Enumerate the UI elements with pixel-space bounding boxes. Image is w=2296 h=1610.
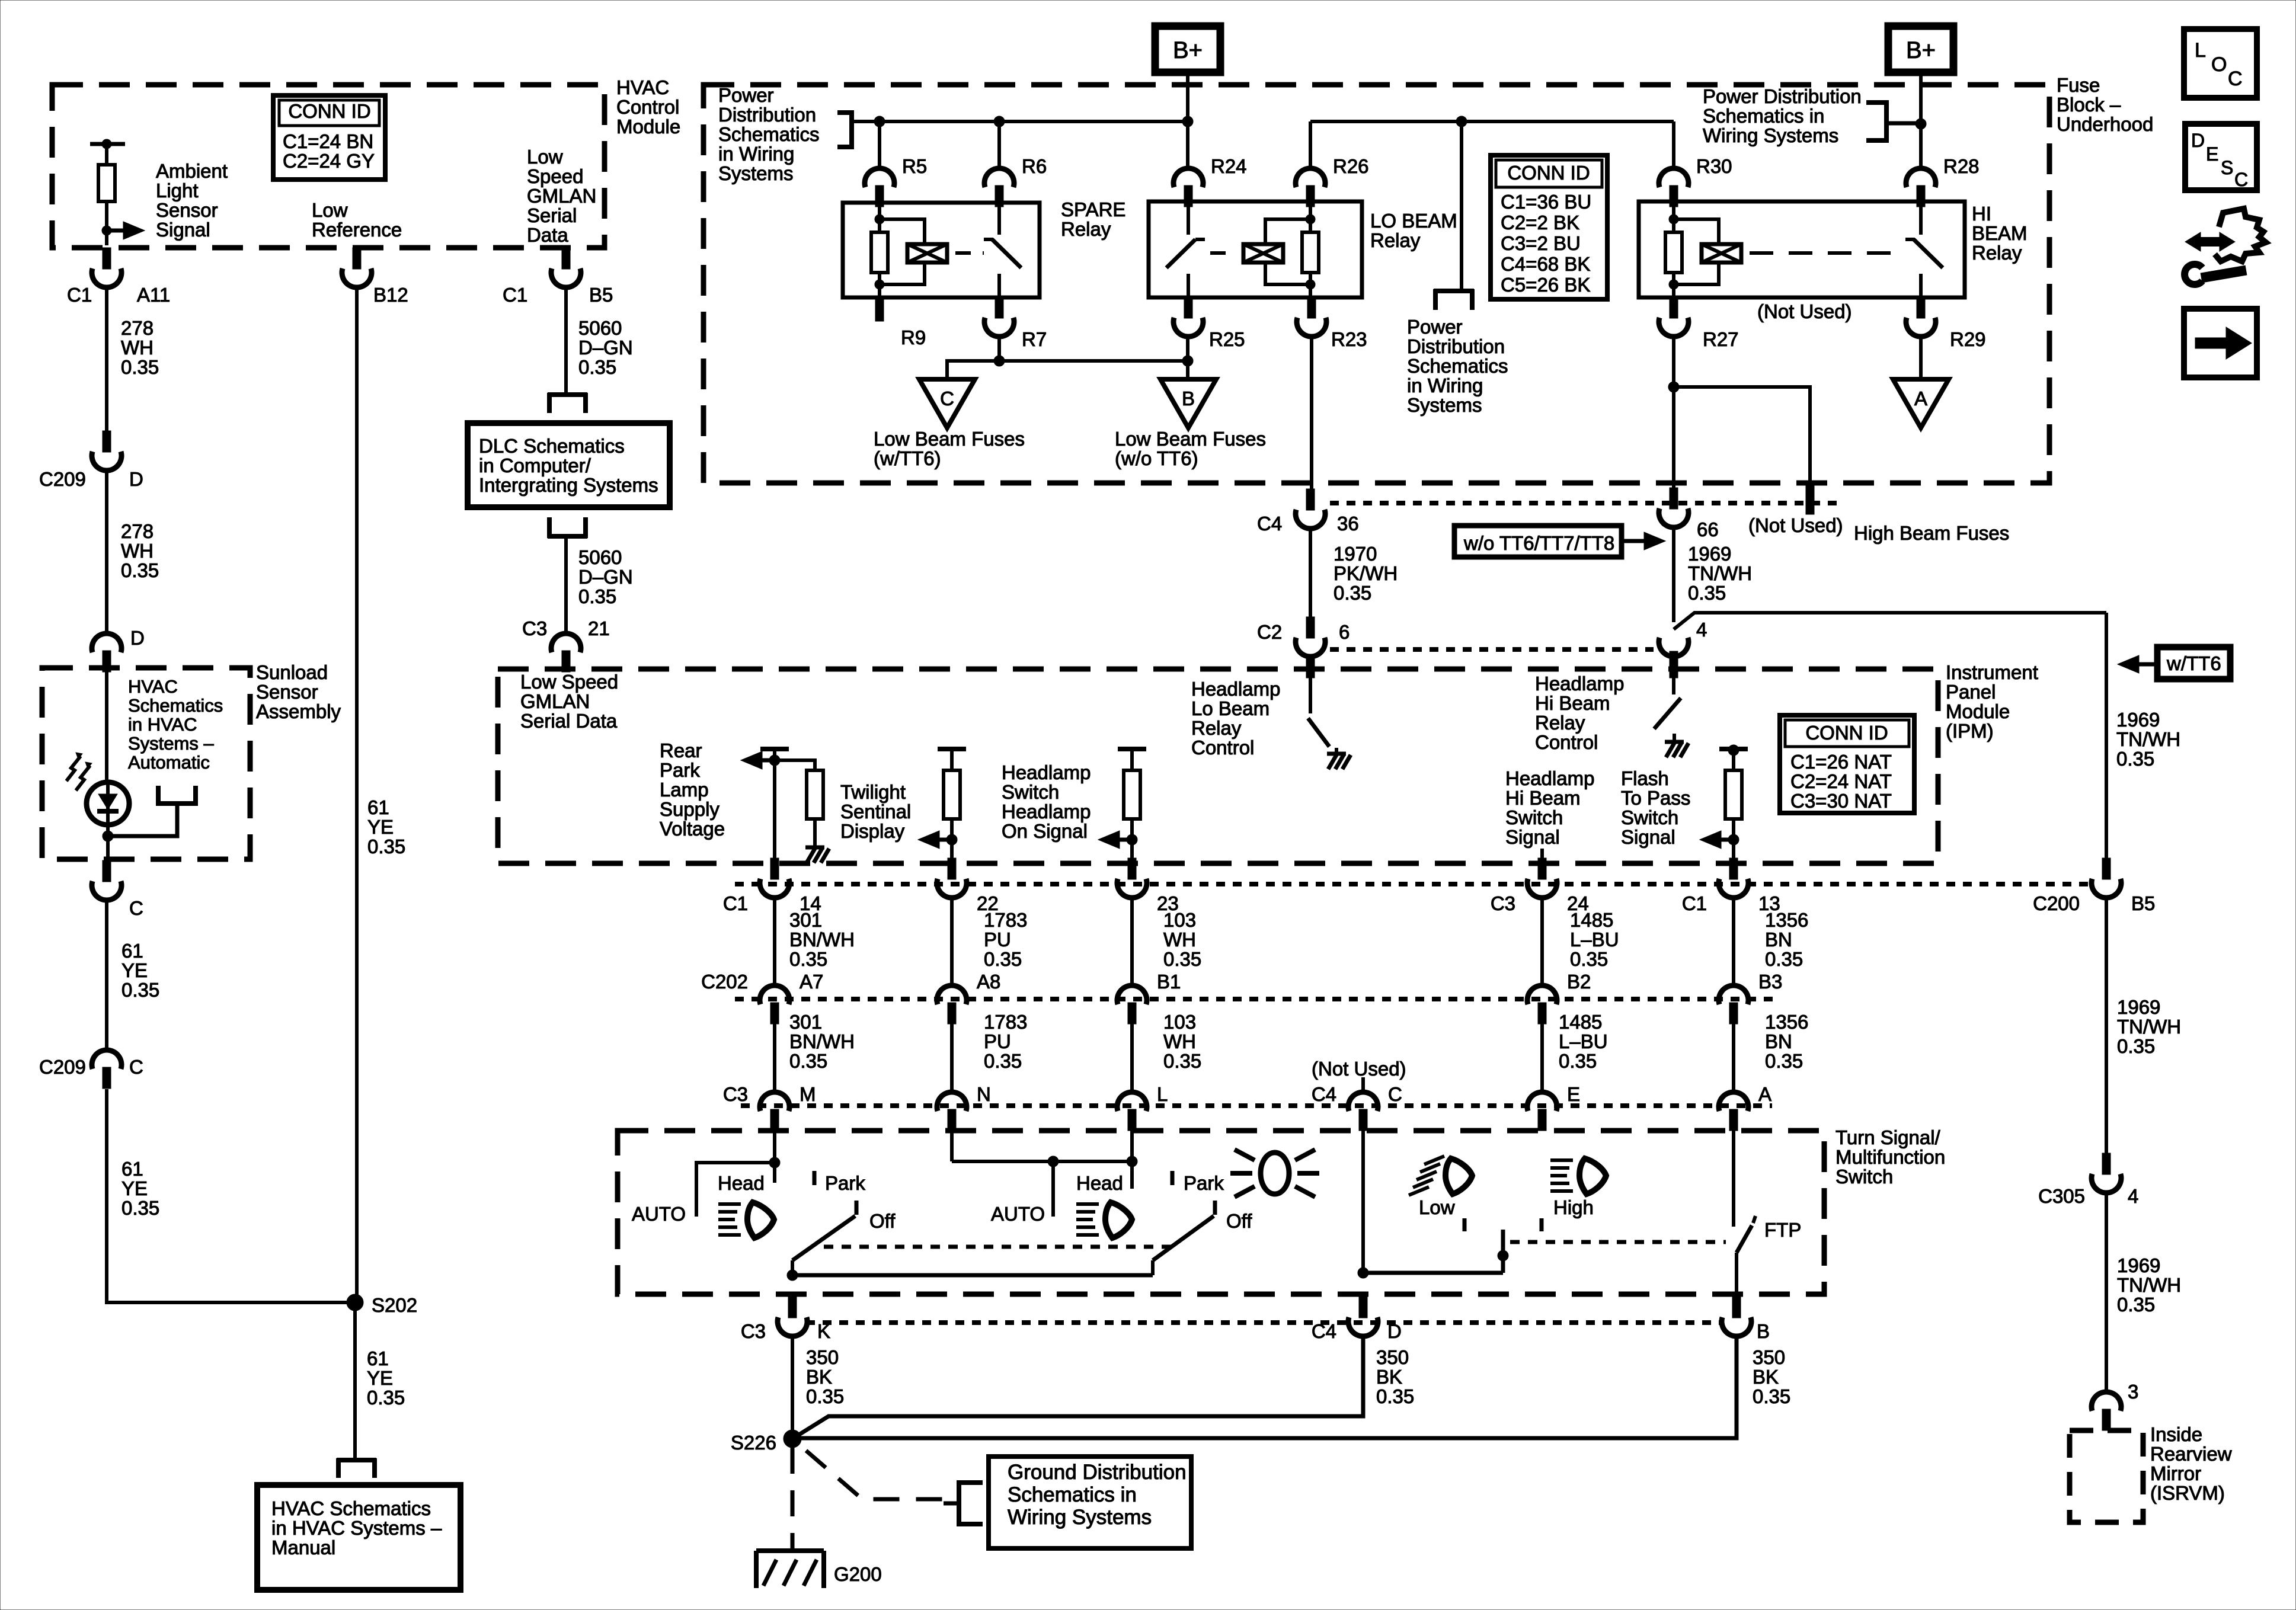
svg-text:Low Beam Fuses: Low Beam Fuses <box>1115 428 1266 450</box>
svg-text:Power: Power <box>1407 316 1463 338</box>
label Low Speed GMLAN Serial Data (HVAC) <box>527 146 596 246</box>
svg-text:1485: 1485 <box>1570 909 1613 931</box>
connector 23 <box>1128 858 1136 879</box>
label wire 61 YE 0.35 col1 upper <box>121 940 159 1001</box>
svg-text:Switch: Switch <box>1002 781 1059 803</box>
wire 61 YE col1 lower <box>107 1089 355 1302</box>
fine dash row IPM bottom <box>735 882 2092 886</box>
wire R27 down <box>1672 338 1675 501</box>
svg-text:Schematics in: Schematics in <box>1008 1483 1137 1506</box>
wire lo relay control <box>1309 678 1312 713</box>
HI coil node bottom <box>1669 280 1678 289</box>
label wire 350 BK (B) <box>1753 1346 1790 1407</box>
stub not used terminal <box>1806 485 1814 514</box>
svg-text:Serial Data: Serial Data <box>520 710 618 732</box>
svg-text:0.35: 0.35 <box>984 948 1022 970</box>
svg-text:BN/WH: BN/WH <box>789 929 855 950</box>
wire R5 drop <box>878 121 881 168</box>
svg-text:Wiring Systems: Wiring Systems <box>1703 124 1838 146</box>
svg-text:Mirror: Mirror <box>2150 1462 2201 1484</box>
svg-text:C1=24 BN: C1=24 BN <box>283 130 373 152</box>
svg-text:0.35: 0.35 <box>1163 1050 1201 1072</box>
Turn Signal Multifunction Switch dashed box <box>618 1131 1824 1294</box>
svg-text:(IPM): (IPM) <box>1946 720 1994 742</box>
label wire 1485 L-BU (upper) <box>1570 909 1619 970</box>
svg-text:C3=30 NAT: C3=30 NAT <box>1790 790 1892 812</box>
terminal R9 stub (not used) <box>875 297 884 321</box>
svg-text:R23: R23 <box>1331 328 1367 350</box>
svg-text:1783: 1783 <box>984 909 1027 931</box>
svg-text:C3: C3 <box>522 617 547 639</box>
SPARE coil node top <box>875 215 884 224</box>
svg-text:Head: Head <box>718 1172 765 1194</box>
svg-text:C5=26 BK: C5=26 BK <box>1501 274 1590 296</box>
svg-text:R9: R9 <box>901 327 926 348</box>
hi beam control switch blade <box>1654 698 1681 729</box>
svg-text:S202: S202 <box>372 1294 417 1316</box>
svg-text:D: D <box>2191 130 2205 151</box>
svg-text:D–GN: D–GN <box>578 337 633 359</box>
connector E switch <box>1527 1092 1557 1111</box>
headlamp icon switch2 <box>1076 1202 1099 1206</box>
HVAC Schematics Manual reference box <box>257 1485 461 1590</box>
svg-text:0.35: 0.35 <box>578 356 616 378</box>
label wire 1356 BN (lower) <box>1765 1011 1808 1072</box>
svg-text:L: L <box>2195 39 2206 62</box>
svg-text:Supply: Supply <box>660 798 720 820</box>
wire column x1307 C202 to switch row <box>773 1014 776 1092</box>
connector B3 <box>1719 985 1748 1004</box>
FTP blade <box>1753 1216 1755 1223</box>
svg-text:Park: Park <box>660 759 700 781</box>
wire column x1307 IPM to C202 <box>773 899 776 985</box>
node dot ambient sensor top <box>102 139 111 149</box>
svg-text:Control: Control <box>1535 731 1598 753</box>
svg-text:Turn Signal/: Turn Signal/ <box>1835 1126 1941 1148</box>
svg-text:w/TT6: w/TT6 <box>2166 652 2221 674</box>
svg-text:Twilight: Twilight <box>840 781 906 803</box>
connector R28 <box>1906 168 1936 187</box>
fuse triangle A <box>1893 379 1949 428</box>
svg-text:L–BU: L–BU <box>1570 929 1619 950</box>
wire S226 to ground dashed <box>791 1448 795 1550</box>
svg-text:A7: A7 <box>800 971 823 993</box>
connector R25 <box>1184 297 1192 318</box>
svg-text:On Signal: On Signal <box>1002 820 1088 842</box>
label wire 103 WH (lower) <box>1163 1011 1201 1072</box>
connector B1 <box>1117 985 1147 1004</box>
label wire 5060 D-GN 0.35 upper <box>578 317 633 378</box>
svg-text:Sensor: Sensor <box>256 681 318 703</box>
label Flash To Pass Switch Signal <box>1621 767 1690 848</box>
svg-text:Inside: Inside <box>2150 1423 2202 1445</box>
connector C1 B5 <box>562 248 570 269</box>
svg-text:Schematics in: Schematics in <box>1703 105 1824 127</box>
arrow legend box <box>2184 309 2257 377</box>
svg-text:PU: PU <box>984 929 1011 950</box>
svg-text:0.35: 0.35 <box>1765 1050 1803 1072</box>
wire B return <box>794 1337 1737 1438</box>
wire R29 down <box>1919 338 1923 379</box>
svg-text:103: 103 <box>1163 1011 1196 1033</box>
connector C3 24 <box>1538 858 1546 879</box>
relay box HI BEAM <box>1639 201 1965 297</box>
wire SPARE coil resistor bottom <box>878 273 881 297</box>
headlamp icon switch1 <box>718 1202 741 1206</box>
svg-text:Schematics: Schematics <box>128 695 223 716</box>
svg-text:S226: S226 <box>731 1432 776 1454</box>
svg-text:Headlamp: Headlamp <box>1535 673 1624 694</box>
svg-text:4: 4 <box>1696 619 1707 641</box>
svg-text:N: N <box>977 1083 991 1105</box>
svg-text:Lamp: Lamp <box>660 779 709 801</box>
connector R26 <box>1296 168 1325 187</box>
svg-text:0.35: 0.35 <box>984 1050 1022 1072</box>
switch1 blade <box>855 1201 859 1215</box>
svg-text:350: 350 <box>806 1346 839 1368</box>
wire rear park top <box>773 749 776 862</box>
node dot rear park <box>769 755 780 766</box>
svg-text:Intergrating Systems: Intergrating Systems <box>479 474 658 496</box>
svg-text:Display: Display <box>840 820 905 842</box>
svg-text:Sunload: Sunload <box>256 661 328 683</box>
SPARE coil symbol <box>907 244 947 263</box>
svg-text:High Beam Fuses: High Beam Fuses <box>1854 522 2009 544</box>
label wire 103 WH (upper) <box>1163 909 1201 970</box>
connector C4 D <box>1359 1297 1367 1318</box>
svg-text:61: 61 <box>367 1347 389 1369</box>
label Turn Signal/Multifunction Switch <box>1835 1126 1945 1188</box>
connector R24 <box>1173 168 1203 187</box>
splice S226 <box>784 1430 801 1448</box>
svg-text:350: 350 <box>1753 1346 1785 1368</box>
relay box SPARE <box>843 203 1040 297</box>
fine dash row C2-4 <box>1330 647 1654 652</box>
splice S202 <box>347 1294 363 1311</box>
label Low Beam Fuses w/o TT6 <box>1115 428 1266 469</box>
fork from DLC schematics (up) <box>548 534 587 539</box>
svg-text:0.35: 0.35 <box>2117 1035 2155 1057</box>
svg-text:S: S <box>2221 157 2233 178</box>
svg-text:B+: B+ <box>1906 37 1936 63</box>
svg-text:0.35: 0.35 <box>121 979 159 1001</box>
park tick 2 <box>1171 1171 1175 1185</box>
connector 22 <box>948 858 956 879</box>
svg-text:Distribution: Distribution <box>1407 335 1505 357</box>
label wire 350 BK (D) <box>1376 1346 1414 1407</box>
wire 1970 PK/WH <box>1309 530 1312 617</box>
connector B12 <box>353 248 361 269</box>
svg-text:0.35: 0.35 <box>1753 1385 1790 1407</box>
svg-text:AUTO: AUTO <box>991 1203 1045 1225</box>
svg-text:D–GN: D–GN <box>578 566 633 588</box>
wire HI switch top <box>1919 201 1923 235</box>
node dot R5 bus <box>874 116 885 127</box>
svg-text:0.35: 0.35 <box>367 1387 405 1409</box>
wire 278 WH upper <box>105 289 108 443</box>
svg-text:C4: C4 <box>1312 1083 1336 1105</box>
svg-text:Wiring Systems: Wiring Systems <box>1008 1506 1152 1529</box>
svg-text:Power Distribution: Power Distribution <box>1703 85 1862 107</box>
svg-text:C209: C209 <box>39 468 86 490</box>
ground rear park resistor <box>805 846 824 850</box>
svg-text:B12: B12 <box>373 284 408 306</box>
svg-text:C1: C1 <box>723 892 748 914</box>
svg-text:Assembly: Assembly <box>256 700 341 722</box>
linkage dashed switch1-2 <box>824 1245 1176 1249</box>
vehicle double-arrow wrench icon <box>2196 237 2224 247</box>
svg-text:C3: C3 <box>723 1083 748 1105</box>
svg-text:C1: C1 <box>67 284 92 306</box>
label Inside Rearview Mirror (ISRVM) <box>2150 1423 2232 1504</box>
svg-text:WH: WH <box>1163 929 1196 950</box>
label wire 1969 TN/WH (mid) <box>2117 996 2181 1057</box>
svg-text:BN: BN <box>1765 1030 1792 1052</box>
svg-text:Relay: Relay <box>1370 229 1421 251</box>
wire R7 down <box>997 338 1001 361</box>
wire LO coil top <box>1309 203 1312 232</box>
connector R27 <box>1670 297 1678 318</box>
wire K to S226 <box>791 1337 794 1430</box>
wire 5060 upper <box>564 289 568 393</box>
label Headlamp Switch Headlamp On Signal <box>1002 761 1091 842</box>
connector C200 B5 <box>2102 858 2110 879</box>
svg-text:High: High <box>1553 1196 1594 1218</box>
connector C3 M switch <box>760 1092 789 1111</box>
svg-text:R27: R27 <box>1703 328 1739 350</box>
wire R6 drop <box>997 121 1001 168</box>
svg-text:61: 61 <box>121 940 143 962</box>
CONN ID box Fuse Block relays <box>1491 155 1607 299</box>
connector R7 <box>995 297 1003 318</box>
lo beam control ground <box>1335 748 1338 754</box>
wire B+ left down <box>1186 72 1189 168</box>
svg-text:Automatic: Automatic <box>128 752 210 773</box>
svg-text:in HVAC: in HVAC <box>128 714 197 735</box>
svg-text:Instrument: Instrument <box>1946 661 2038 683</box>
wire photodiode to node <box>106 825 110 836</box>
svg-text:Headlamp: Headlamp <box>1002 761 1091 783</box>
wire bus right corner to R26 <box>1309 121 1312 168</box>
svg-text:Systems: Systems <box>718 162 794 184</box>
svg-text:Multifunction: Multifunction <box>1835 1146 1945 1168</box>
CONN ID box HVAC <box>273 95 385 180</box>
svg-text:C4=68 BK: C4=68 BK <box>1501 253 1590 275</box>
connector A8 <box>937 985 967 1004</box>
fork to DLC schematics (down) <box>548 392 587 397</box>
svg-text:Rearview: Rearview <box>2150 1443 2232 1465</box>
svg-text:0.35: 0.35 <box>578 585 616 607</box>
hi beam control ground <box>1673 734 1676 742</box>
svg-text:Off: Off <box>1226 1210 1252 1232</box>
svg-text:TN/WH: TN/WH <box>2117 1016 2181 1038</box>
label wire 5060 D-GN 0.35 lower <box>578 546 633 607</box>
wire sunload node down <box>106 836 110 860</box>
power distribution bracket right <box>1866 100 1886 105</box>
svg-text:R30: R30 <box>1696 155 1732 177</box>
SPARE coil node bottom <box>875 280 884 289</box>
label Rear Park Lamp Supply Voltage <box>660 740 725 840</box>
svg-text:350: 350 <box>1376 1346 1409 1368</box>
svg-text:Panel: Panel <box>1946 681 1996 703</box>
label HVAC Schematics Manual <box>271 1497 442 1558</box>
node dot R6 bus <box>994 116 1005 127</box>
svg-text:3: 3 <box>2128 1381 2138 1403</box>
connector D sunload <box>92 633 121 652</box>
connector L switch <box>1117 1092 1147 1111</box>
HI coil symbol <box>1702 244 1741 263</box>
wire 278 WH lower <box>105 472 108 632</box>
label Low Beam Fuses w/TT6 <box>874 428 1025 469</box>
svg-text:Control: Control <box>1191 737 1254 758</box>
lo beam control switch blade <box>1308 718 1329 747</box>
connector B2 <box>1527 985 1557 1004</box>
wire into sunload box <box>105 670 108 783</box>
svg-text:Signal: Signal <box>156 219 210 241</box>
fine dash row switch <box>741 1103 1772 1108</box>
node dot R25 link <box>1182 356 1193 366</box>
svg-text:BK: BK <box>806 1366 832 1388</box>
svg-text:C: C <box>2234 169 2248 190</box>
stub 4 into IPM <box>1670 651 1678 678</box>
svg-text:Switch: Switch <box>1835 1166 1893 1188</box>
svg-text:C: C <box>1388 1083 1402 1105</box>
svg-text:(w/TT6): (w/TT6) <box>874 447 941 469</box>
svg-text:C200: C200 <box>2033 892 2080 914</box>
flash to pass pull-up <box>1719 747 1748 751</box>
svg-text:Headlamp: Headlamp <box>1002 801 1091 822</box>
svg-text:Low Beam Fuses: Low Beam Fuses <box>874 428 1025 450</box>
power distribution bracket left <box>837 110 852 115</box>
wire switch1 blade down <box>791 1260 794 1275</box>
wire D return <box>792 1337 1363 1439</box>
label HI BEAM Relay <box>1972 203 2028 264</box>
DESC legend box <box>2185 124 2257 190</box>
svg-text:Flash: Flash <box>1621 767 1669 789</box>
connector R23 <box>1307 297 1316 318</box>
svg-text:B: B <box>1182 388 1195 409</box>
wire HI coil loop bottom <box>1674 263 1719 284</box>
label wire 350 BK (K) <box>806 1346 844 1407</box>
wire switch2 AUTO contact <box>1051 1161 1055 1217</box>
svg-text:(ISRVM): (ISRVM) <box>2150 1482 2225 1504</box>
wire 1969 TN/WH below 66 <box>1672 529 1675 622</box>
node dot dimmer blade <box>1498 1250 1508 1261</box>
connector A switch <box>1719 1092 1748 1111</box>
node dot switch1 <box>769 1157 780 1168</box>
svg-text:Module: Module <box>616 116 680 137</box>
svg-text:Systems: Systems <box>1407 394 1482 416</box>
svg-text:1969: 1969 <box>1688 543 1731 565</box>
wire M into switch <box>773 1131 776 1183</box>
wire LO coil bottom <box>1309 273 1312 297</box>
wire L into switch <box>1130 1131 1134 1189</box>
svg-text:D: D <box>1387 1320 1402 1342</box>
svg-text:WH: WH <box>121 540 154 562</box>
svg-text:E: E <box>2206 143 2218 165</box>
svg-text:0.35: 0.35 <box>1376 1385 1414 1407</box>
connector C3 21 <box>551 633 581 652</box>
svg-text:GMLAN: GMLAN <box>520 690 590 712</box>
wire 5060 lower <box>564 536 568 633</box>
svg-text:Voltage: Voltage <box>660 818 725 840</box>
connector C1 A11 <box>103 248 111 269</box>
wire N into switch <box>950 1131 954 1161</box>
wire FTP down <box>1735 1253 1738 1298</box>
wire LO coil loop bottom <box>1265 263 1310 284</box>
wire link R7 to C fuse <box>947 361 1188 377</box>
node dot R7 link <box>994 356 1005 366</box>
box w/TT6 <box>2157 647 2230 679</box>
svg-text:M: M <box>800 1083 816 1105</box>
svg-text:C4: C4 <box>1312 1320 1336 1342</box>
wire LO switch bottom <box>1187 274 1190 297</box>
box w/o TT6/TT7/TT8 <box>1454 526 1622 557</box>
svg-text:Signal: Signal <box>1621 826 1675 848</box>
LO switch blade <box>1166 239 1195 268</box>
label wire 1485 L-BU (lower) <box>1559 1011 1608 1072</box>
svg-text:0.35: 0.35 <box>789 948 827 970</box>
svg-text:C: C <box>2228 68 2243 90</box>
wire SPARE coil loop bottom <box>880 263 925 284</box>
label wire 278 WH 0.35 upper <box>121 317 159 378</box>
svg-text:YE: YE <box>121 959 148 981</box>
svg-text:E: E <box>1567 1083 1580 1105</box>
svg-text:Relay: Relay <box>1972 242 2022 264</box>
node dot power distribution drop <box>1456 116 1467 127</box>
high tick <box>1540 1218 1544 1231</box>
dimmer blade vertical <box>1501 1230 1505 1273</box>
Ground Distribution reference box <box>989 1457 1191 1548</box>
bus wire right <box>1310 120 1674 123</box>
svg-text:0.35: 0.35 <box>121 356 159 378</box>
wire column x1910 C202 to switch row <box>1130 1014 1134 1092</box>
arrow ambient signal right <box>123 222 145 239</box>
wire ambient mid <box>105 201 108 245</box>
svg-text:PK/WH: PK/WH <box>1334 562 1398 584</box>
svg-text:(Not Used): (Not Used) <box>1757 300 1852 322</box>
svg-text:C3: C3 <box>1491 892 1515 914</box>
svg-text:0.35: 0.35 <box>789 1050 827 1072</box>
svg-text:Control: Control <box>616 96 679 118</box>
svg-text:Fuse: Fuse <box>2057 74 2100 96</box>
node dot ambient signal <box>102 226 111 235</box>
svg-text:301: 301 <box>789 1011 822 1033</box>
label Low Speed GMLAN Serial Data (IPM) <box>520 671 618 732</box>
wire 61 YE B12 to S202 <box>355 289 359 1302</box>
SPARE coil resistor <box>871 232 888 273</box>
svg-text:C3=2 BU: C3=2 BU <box>1501 232 1581 254</box>
label Power Distribution Schematics (HVAC side) <box>718 84 820 184</box>
svg-text:C1: C1 <box>1682 892 1707 914</box>
svg-text:Sentinal: Sentinal <box>840 801 911 822</box>
connector 3 ISRVM <box>2092 1392 2121 1411</box>
wire B+ right down <box>1919 72 1923 168</box>
svg-text:SPARE: SPARE <box>1061 199 1125 220</box>
connector 66 <box>1670 488 1678 509</box>
svg-text:TN/WH: TN/WH <box>2116 728 2180 750</box>
svg-text:R28: R28 <box>1943 155 1980 177</box>
svg-text:R5: R5 <box>902 155 927 177</box>
svg-text:in Wiring: in Wiring <box>718 143 794 165</box>
svg-text:Distribution: Distribution <box>718 104 816 126</box>
twilight sentinel pull-up <box>938 747 966 751</box>
label Low Reference <box>312 199 402 241</box>
svg-text:Speed: Speed <box>527 165 583 187</box>
park tick 1 <box>813 1171 817 1185</box>
connector C1 13 <box>1729 858 1738 879</box>
svg-text:WH: WH <box>121 337 154 359</box>
